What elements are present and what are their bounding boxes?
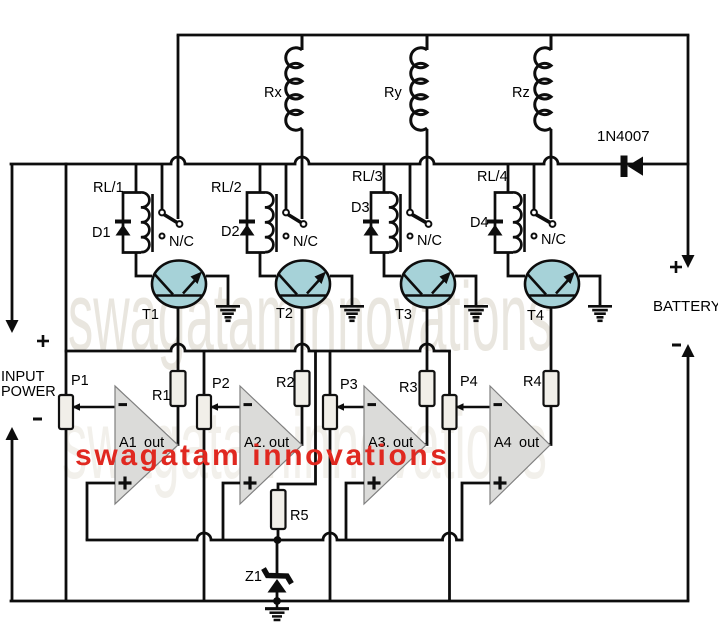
wire wiper to inverting input ch4 xyxy=(456,403,491,411)
svg-text:T3: T3 xyxy=(395,307,412,323)
ground below Z1 xyxy=(265,601,289,620)
INPUT POWER side xyxy=(1,164,56,601)
wire pot feed ch3 xyxy=(329,351,332,395)
wire emitter to ground ch4 xyxy=(579,276,600,305)
wire wiper to inverting input ch1 xyxy=(72,403,115,411)
svg-text:R2: R2 xyxy=(276,375,295,391)
svg-text:T2: T2 xyxy=(276,306,293,322)
label battery + xyxy=(670,261,682,273)
svg-text:INPUT: INPUT xyxy=(1,369,45,385)
svg-text:N/C: N/C xyxy=(541,232,566,248)
inductor Rz xyxy=(512,35,551,130)
node zener/ground-rail junction xyxy=(273,597,281,605)
svg-text:RL/2: RL/2 xyxy=(211,180,242,196)
relay RL/2 xyxy=(211,180,277,253)
wire pot ground leg ch3 xyxy=(329,429,332,601)
svg-text:N/C: N/C xyxy=(293,234,318,250)
node R5/reference junction xyxy=(274,536,282,544)
svg-text:T1: T1 xyxy=(142,307,159,323)
wire emitter to ground ch1 xyxy=(206,276,228,305)
wire pot feed ch2 xyxy=(203,351,206,395)
wire emitter to ground ch2 xyxy=(330,276,352,305)
wire pot ground leg ch2 xyxy=(203,429,206,601)
wire relay-arm drop ch2 xyxy=(301,129,304,219)
transistor T2 xyxy=(276,261,330,323)
node N/C contact ch2 xyxy=(284,234,318,251)
svg-text:BATTERY: BATTERY xyxy=(653,298,718,315)
wire base drive ch2 xyxy=(301,308,304,372)
transistor T3 xyxy=(395,261,455,324)
label battery - xyxy=(672,344,681,347)
relay RL/4 xyxy=(477,169,525,253)
zener Z1 xyxy=(245,540,292,605)
svg-text:P2: P2 xyxy=(212,376,230,392)
diode 1N4007 xyxy=(597,128,650,177)
relay switch pole/arm ch2 xyxy=(283,210,306,227)
op-amp A4 xyxy=(490,386,550,504)
svg-text:swagatam innovations: swagatam innovations xyxy=(75,439,450,472)
potentiometer P2 xyxy=(197,376,230,429)
wire pot feed ch4 xyxy=(448,351,451,395)
wire relay-arm drop ch3 xyxy=(426,129,429,219)
svg-text:P3: P3 xyxy=(340,377,358,393)
svg-text:A4: A4 xyxy=(494,435,512,451)
resistor R5 xyxy=(271,351,316,544)
svg-text:RL/4: RL/4 xyxy=(477,169,508,185)
svg-text:Z1: Z1 xyxy=(245,569,262,585)
diode D2 xyxy=(221,222,255,241)
relay switch pole/arm ch3 xyxy=(407,210,431,227)
wire base drive ch3 xyxy=(426,308,429,372)
relay RL/1 xyxy=(93,180,153,253)
wire bottom ground rail xyxy=(11,600,688,603)
label input - xyxy=(33,418,42,421)
BATTERY side xyxy=(653,35,718,601)
wire base drive ch4 xyxy=(550,308,553,372)
wire wiper to inverting input ch3 xyxy=(336,403,364,411)
potentiometer P1 xyxy=(59,373,89,429)
wire relay coil feed ch2 xyxy=(259,164,262,192)
wire relay pole feed ch1 xyxy=(161,164,164,210)
wire R4 to op-amp output ch4 xyxy=(548,406,551,445)
wire battery + feed from top rail xyxy=(687,35,690,256)
wire relay pole feed ch2 xyxy=(285,164,288,210)
svg-text:RL/3: RL/3 xyxy=(352,169,383,185)
wire battery - return xyxy=(682,344,695,357)
wire relay coil feed ch1 xyxy=(135,164,138,192)
wire R3 to op-amp output ch3 xyxy=(424,406,427,445)
op-amp A1 xyxy=(115,386,178,504)
transistor T1 xyxy=(142,261,206,324)
wire coil to collector ch3 xyxy=(384,252,401,276)
wire lower supply rail with hops over base lines xyxy=(66,344,450,351)
diode D1 xyxy=(92,222,131,242)
resistor R2 xyxy=(276,371,310,406)
relay switch pole/arm ch1 xyxy=(159,210,182,227)
resistor R4 xyxy=(523,371,559,406)
wire R1 to op-amp output ch1 xyxy=(176,406,178,445)
inductor Rx xyxy=(264,35,302,130)
svg-text:D2: D2 xyxy=(221,224,240,240)
svg-text:D4: D4 xyxy=(470,215,489,231)
svg-text:P4: P4 xyxy=(460,374,478,390)
svg-text:T4: T4 xyxy=(527,308,544,324)
wire coil to collector ch4 xyxy=(508,252,525,276)
svg-text:R3: R3 xyxy=(399,380,418,396)
wire non-inverting input to reference rail ch1 xyxy=(87,483,115,540)
svg-text:1N4007: 1N4007 xyxy=(597,128,650,145)
wire relay pole feed ch4 xyxy=(533,164,536,210)
wire base drive ch1 xyxy=(177,308,180,372)
ground ch4 xyxy=(588,306,612,321)
svg-text:Ry: Ry xyxy=(384,85,402,101)
svg-text:R1: R1 xyxy=(152,388,171,404)
wire relay pole feed ch3 xyxy=(409,164,412,210)
relay switch pole/arm ch4 xyxy=(531,210,555,227)
wire pot ground leg ch1 xyxy=(65,429,68,601)
wire non-inverting input to reference rail ch3 xyxy=(346,483,364,540)
wire input + arrow xyxy=(11,164,14,321)
svg-text:Rz: Rz xyxy=(512,85,530,101)
svg-text:N/C: N/C xyxy=(169,234,194,250)
svg-text:POWER: POWER xyxy=(1,384,56,400)
wire input - arrow xyxy=(6,427,19,440)
potentiometer P4 xyxy=(443,374,478,429)
potentiometer P3 xyxy=(323,377,358,429)
wire non-inverting input to reference rail ch2 xyxy=(223,483,240,540)
wire coil to collector ch2 xyxy=(260,252,276,276)
node N/C contact ch1 xyxy=(160,234,194,251)
ground ch2 xyxy=(340,306,364,321)
op-amp A2 xyxy=(240,386,302,504)
svg-text:out: out xyxy=(519,435,539,451)
wire reference rail with hops over pot ground lines xyxy=(87,533,462,540)
svg-text:Rx: Rx xyxy=(264,85,282,101)
wire relay-arm drop ch1 xyxy=(177,35,180,219)
label input + xyxy=(37,335,49,347)
wire non-inverting input to reference rail ch4 xyxy=(462,483,490,540)
resistor R1 xyxy=(152,371,186,406)
wire left branch vertical P1 feed xyxy=(65,164,68,395)
wire relay coil feed ch4 xyxy=(507,164,510,192)
svg-text:RL/1: RL/1 xyxy=(93,180,124,196)
op-amp A3 xyxy=(364,386,426,504)
wire coil to collector ch1 xyxy=(136,252,152,276)
ground ch1 xyxy=(216,306,240,321)
resistor R3 xyxy=(399,371,435,406)
diode D3 xyxy=(351,200,379,236)
watermark light text line 1 xyxy=(62,263,553,499)
ground ch3 xyxy=(464,306,488,321)
node N/C contact ch3 xyxy=(408,233,442,249)
wire R2 to op-amp output ch2 xyxy=(300,406,302,445)
svg-text:R5: R5 xyxy=(290,508,309,524)
relay RL/3 xyxy=(352,169,401,253)
svg-text:D3: D3 xyxy=(351,200,370,216)
transistor T4 xyxy=(525,261,579,325)
wire emitter to ground ch3 xyxy=(455,276,476,305)
wire relay-arm drop ch4 xyxy=(550,129,553,219)
svg-text:N/C: N/C xyxy=(417,233,442,249)
svg-text:D1: D1 xyxy=(92,225,111,241)
diode D4 xyxy=(470,215,503,236)
wire wiper to inverting input ch2 xyxy=(210,403,240,411)
wire relay coil feed ch3 xyxy=(383,164,386,192)
node N/C contact ch4 xyxy=(532,232,566,248)
svg-text:R4: R4 xyxy=(523,374,542,390)
inductor Ry xyxy=(384,35,427,130)
wire top rail (node to relay poles via coils) xyxy=(178,34,688,37)
wire pot ground leg ch4 xyxy=(448,429,451,601)
svg-text:P1: P1 xyxy=(71,373,89,389)
wire +supply rail with hops over relay-arm drops xyxy=(11,157,688,164)
